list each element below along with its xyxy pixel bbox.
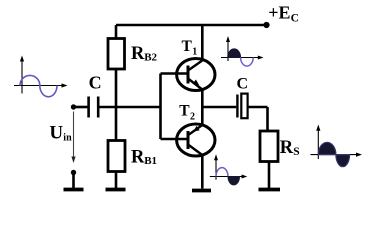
svg-text:R: R xyxy=(280,138,294,158)
svg-text:in: in xyxy=(63,133,72,144)
svg-text:U: U xyxy=(49,122,63,143)
svg-text:2: 2 xyxy=(190,111,195,122)
svg-text:C: C xyxy=(291,13,299,25)
svg-text:T: T xyxy=(179,103,190,120)
svg-text:T: T xyxy=(182,38,193,55)
svg-text:+E: +E xyxy=(268,3,290,23)
svg-text:S: S xyxy=(293,146,299,158)
svg-text:C: C xyxy=(237,75,249,92)
svg-text:1: 1 xyxy=(192,46,197,57)
svg-text:R: R xyxy=(131,148,145,168)
svg-text:B1: B1 xyxy=(144,155,157,167)
svg-text:C: C xyxy=(89,73,102,93)
svg-text:B2: B2 xyxy=(144,51,157,63)
svg-text:R: R xyxy=(131,44,145,64)
